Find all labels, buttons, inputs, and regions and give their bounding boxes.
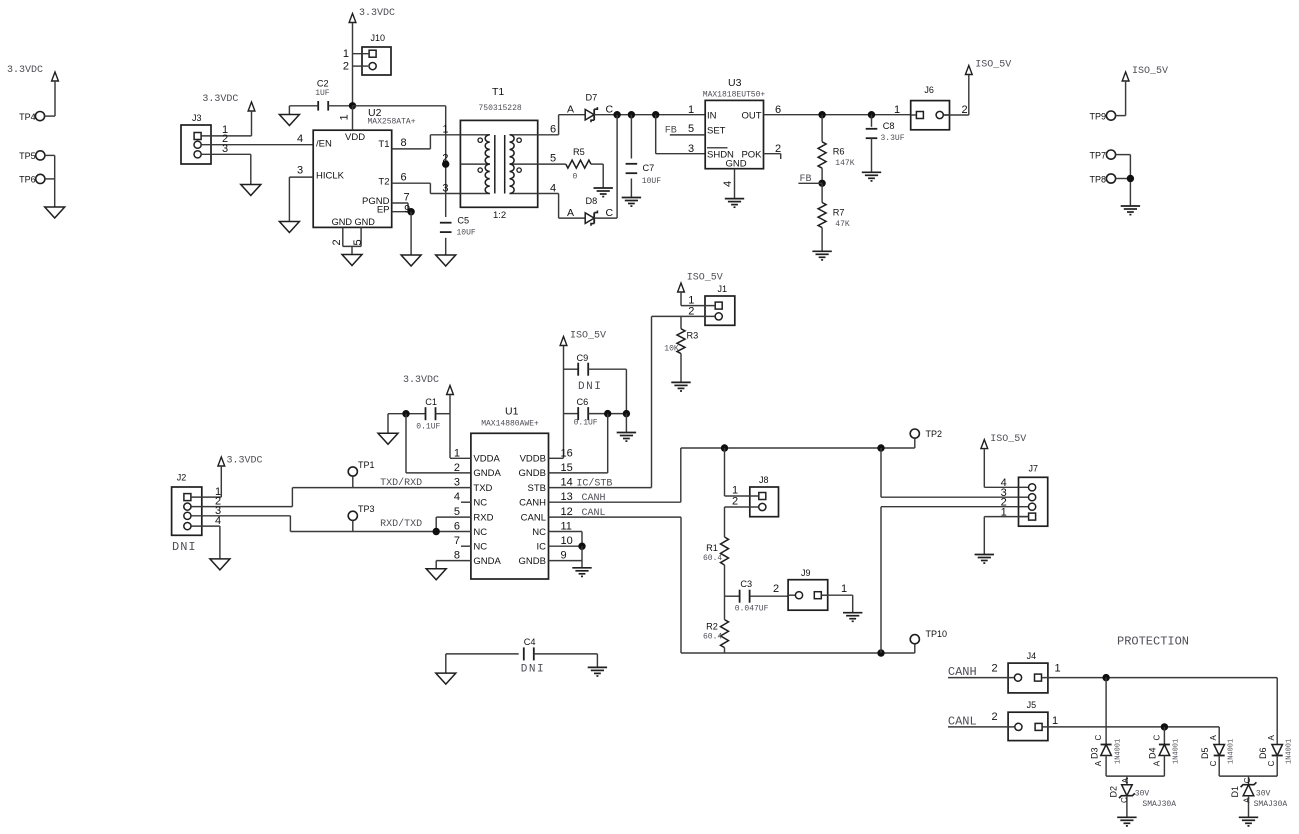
wire J3 pin2 to U2 /EN (pin 4)	[201, 133, 313, 145]
svg-text:2: 2	[961, 104, 967, 116]
wire C9 right to C6 node	[625, 369, 627, 413]
wire J6 pin2 to ISO_5V	[944, 74, 969, 115]
ground (earth) at R3	[671, 382, 690, 391]
svg-text:TP3: TP3	[358, 504, 375, 514]
U2 pin 8 T1 wire	[392, 135, 461, 149]
svg-text:6: 6	[550, 124, 556, 136]
svg-text:A: A	[1209, 735, 1218, 741]
svg-text:9: 9	[561, 550, 567, 562]
svg-text:3: 3	[442, 182, 448, 194]
junction J4/D3 node	[1102, 674, 1109, 681]
connector J2 (DNI)	[172, 473, 202, 554]
svg-text:C7: C7	[643, 163, 655, 173]
svg-text:1: 1	[688, 104, 694, 116]
IC U3 MAX1818EUT50+	[703, 77, 766, 170]
wire J8 pin1	[725, 448, 759, 497]
U1 pin1 VDDA wire	[450, 457, 471, 459]
U1 left pin numbers	[454, 447, 460, 561]
junction C6/GNDB node	[604, 410, 611, 417]
wire CANH to D3 cathode	[1105, 678, 1107, 745]
svg-text:10: 10	[561, 535, 573, 547]
diode D7	[585, 93, 613, 123]
capacitor C3 0.047UF	[725, 579, 789, 614]
U1 right pin numbers	[561, 447, 573, 561]
svg-text:ISO_5V: ISO_5V	[687, 273, 723, 284]
svg-text:12: 12	[561, 506, 573, 518]
wire CANL to J7 pin2	[881, 507, 1029, 653]
U1 pin7 NC stub	[461, 545, 471, 547]
svg-text:A: A	[567, 104, 574, 116]
U2 pin 3 HICLK wire to ground	[289, 165, 313, 222]
svg-text:VDDB: VDDB	[520, 454, 546, 465]
wire TP7/TP8 to ground	[1129, 155, 1131, 206]
svg-text:CANL: CANL	[948, 714, 977, 728]
svg-text:1N4001: 1N4001	[1114, 739, 1122, 764]
junction rail node A	[613, 111, 620, 118]
wire D1 to ground	[1248, 796, 1250, 818]
svg-text:NC: NC	[473, 542, 487, 553]
svg-text:C3: C3	[740, 579, 752, 589]
svg-text:C9: C9	[577, 353, 589, 363]
junction CANH J8 node	[721, 444, 728, 451]
svg-text:C4: C4	[524, 637, 536, 647]
svg-text:MAX1818EUT50+: MAX1818EUT50+	[703, 91, 766, 100]
junction OUT node C8	[868, 111, 875, 118]
wire CANL down to bus	[681, 517, 915, 653]
ground (earth) at R7	[812, 251, 831, 260]
svg-text:750315228: 750315228	[479, 104, 522, 113]
svg-text:5: 5	[352, 239, 364, 245]
svg-text:1: 1	[1052, 715, 1058, 727]
net label CANH wire to J4 pin2	[948, 662, 1014, 679]
U1 pin13 CANH wire + net label CANH	[549, 493, 681, 504]
svg-text:T1: T1	[492, 86, 504, 98]
U2 pins 2,5 GND wires	[331, 227, 364, 254]
svg-text:1: 1	[343, 48, 349, 60]
wire J8 pin2 to R1	[725, 496, 759, 538]
connector J5	[1008, 700, 1048, 741]
svg-text:MAX258ATA+: MAX258ATA+	[368, 118, 416, 127]
svg-text:J4: J4	[1027, 651, 1037, 661]
svg-text:C2: C2	[317, 79, 329, 89]
wire D5/D6 cathodes join	[1219, 756, 1277, 785]
wire rail to U3 SHDN	[656, 115, 706, 154]
wire D3/D4 anodes join	[1106, 756, 1164, 785]
svg-text:4: 4	[550, 182, 556, 194]
svg-text:1: 1	[454, 447, 460, 459]
diode D1 SMAJ30A (TVS)	[1230, 777, 1287, 809]
ground (triangle) at EP	[401, 255, 421, 266]
U2 pin 1 VDD wire	[339, 106, 353, 130]
svg-text:CANH: CANH	[582, 493, 606, 504]
svg-text:TP10: TP10	[926, 629, 948, 639]
svg-text:5: 5	[454, 506, 460, 518]
U3 pin1 IN label	[688, 104, 694, 116]
svg-text:TP8: TP8	[1089, 174, 1106, 184]
svg-text:U3: U3	[728, 77, 742, 89]
power flag ISO_5V at J1	[678, 273, 723, 306]
wire J2 pin3 to RXD/TXD	[191, 505, 290, 532]
svg-text:A: A	[1152, 760, 1161, 766]
svg-text:GNDB: GNDB	[519, 468, 546, 479]
svg-text:0: 0	[573, 173, 578, 182]
wire J3 pin3 to ground	[201, 143, 250, 185]
connector J3	[181, 113, 211, 164]
power flag 3.3VDC (top)	[349, 8, 395, 106]
resistor R3 10K	[664, 316, 698, 382]
test point TP9	[1089, 111, 1125, 121]
ground (earth) at J9	[843, 613, 862, 622]
net label FB at U3 SET (pin 5)	[665, 123, 705, 136]
svg-text:0.1UF: 0.1UF	[416, 423, 440, 432]
svg-text:3.3VDC: 3.3VDC	[202, 94, 238, 105]
svg-text:CANL: CANL	[521, 512, 546, 523]
IC U1 MAX14880AWE+	[471, 406, 549, 580]
svg-text:A: A	[1094, 760, 1103, 766]
ground (earth) at C7	[622, 198, 641, 207]
svg-text:/EN: /EN	[316, 139, 332, 150]
U2 pin 7 PGND wire	[392, 192, 410, 212]
ground (earth) at D1	[1239, 817, 1258, 826]
resistor R1 60.4	[703, 537, 729, 596]
svg-text:J1: J1	[718, 284, 728, 294]
U1 pin12 CANL wire + net label CANL	[549, 508, 682, 519]
ground (earth) at U1 GNDB	[572, 568, 591, 577]
svg-text:D3: D3	[1089, 747, 1099, 759]
svg-text:TXD: TXD	[473, 483, 492, 494]
svg-text:J7: J7	[1029, 464, 1039, 474]
wire T1 pin4 to D8 anode	[538, 194, 586, 220]
svg-text:6: 6	[454, 521, 460, 533]
svg-text:10K: 10K	[664, 345, 679, 354]
svg-text:1N4001: 1N4001	[1227, 739, 1235, 764]
svg-text:NC: NC	[473, 527, 487, 538]
ground (triangle) at C1	[378, 433, 398, 444]
svg-text:GNDB: GNDB	[519, 556, 546, 567]
junction RXD node	[433, 528, 440, 535]
U1 pin4 NC stub	[461, 501, 471, 503]
svg-text:1: 1	[339, 114, 351, 120]
svg-text:7: 7	[454, 535, 460, 547]
svg-text:DNI: DNI	[172, 540, 197, 554]
capacitor C5 10UF	[440, 216, 476, 238]
svg-text:D8: D8	[586, 196, 598, 206]
net RXD/TXD wire	[290, 518, 471, 531]
svg-text:C: C	[1267, 760, 1276, 766]
svg-text:RXD/TXD: RXD/TXD	[380, 518, 422, 530]
svg-text:SMAJ30A: SMAJ30A	[1142, 800, 1176, 809]
svg-text:3: 3	[222, 143, 228, 155]
svg-text:D2: D2	[1108, 786, 1118, 798]
power flag 3.3VDC at J3	[202, 94, 255, 136]
svg-text:4: 4	[454, 491, 460, 503]
svg-text:C: C	[606, 104, 614, 116]
wire J4 pin1 to CANH bus	[1042, 662, 1278, 677]
diode D3 1N4001	[1089, 735, 1122, 767]
U1 pin8 GNDA wire to ground	[436, 561, 471, 569]
svg-text:0.047UF: 0.047UF	[735, 605, 769, 614]
wire J10 pin2	[343, 61, 368, 73]
power flag 3.3VDC at J2	[218, 456, 263, 467]
svg-text:TP9: TP9	[1089, 111, 1106, 121]
svg-text:DNI: DNI	[521, 664, 545, 676]
svg-text:GND: GND	[726, 159, 747, 170]
svg-text:GND: GND	[332, 217, 353, 227]
svg-text:2: 2	[343, 61, 349, 73]
svg-text:J5: J5	[1027, 700, 1037, 710]
power flag 3.3VDC at C1	[403, 375, 453, 458]
svg-text:5: 5	[688, 123, 694, 135]
svg-text:A: A	[1242, 797, 1251, 803]
net TXD/RXD wire	[292, 477, 471, 489]
test point TP3	[348, 504, 374, 531]
junction rail node C	[652, 111, 659, 118]
svg-text:J6: J6	[924, 85, 934, 95]
ground (earth) at R5	[594, 188, 613, 197]
wire CANH bus to D6 anode	[1276, 678, 1278, 745]
section label PROTECTION	[1117, 634, 1189, 648]
U1 pin14 STB wire + net label IC/STB	[549, 478, 652, 490]
ground (triangle) at U2 GND	[342, 255, 362, 266]
svg-text:D4: D4	[1148, 747, 1158, 759]
svg-text:2: 2	[773, 583, 779, 595]
resistor R2 60.4	[703, 596, 729, 653]
U1 pin10 IC wire	[549, 545, 583, 547]
power flag ISO_5V at C9/C6	[560, 331, 606, 459]
svg-text:C5: C5	[457, 216, 469, 226]
ground (triangle) at C5	[436, 255, 456, 266]
svg-text:TP2: TP2	[926, 429, 943, 439]
wire C1 node to U1 GNDA (pin 2)	[406, 414, 471, 473]
wire CANH up to bus	[681, 448, 915, 502]
svg-text:R1: R1	[706, 543, 718, 553]
svg-text:1:2: 1:2	[493, 210, 506, 221]
svg-text:VDDA: VDDA	[473, 454, 500, 465]
svg-text:C1: C1	[425, 397, 437, 407]
svg-text:J2: J2	[177, 473, 187, 483]
junction EP node	[407, 208, 414, 215]
svg-text:T2: T2	[378, 177, 389, 188]
connector J6	[894, 85, 968, 130]
svg-text:1UF: 1UF	[315, 89, 330, 98]
svg-text:6: 6	[775, 104, 781, 116]
diode D2 SMAJ30A (TVS)	[1108, 777, 1176, 809]
svg-text:1: 1	[841, 583, 847, 595]
svg-text:1: 1	[442, 124, 448, 136]
svg-text:1N4001: 1N4001	[1285, 739, 1293, 764]
resistor R7 47K	[818, 183, 850, 251]
test point TP7	[1089, 150, 1130, 160]
ground (earth) at D2	[1117, 817, 1136, 826]
svg-text:1: 1	[894, 104, 900, 116]
U2 pin 6 T2 wire	[392, 172, 461, 194]
svg-text:C6: C6	[577, 397, 589, 407]
wire D2 to ground	[1126, 796, 1128, 818]
wire J1 pin2 to STB net	[652, 306, 715, 488]
ground (earth) below TP8	[1121, 206, 1140, 215]
svg-text:J10: J10	[371, 33, 386, 43]
svg-text:RXD: RXD	[473, 512, 493, 523]
diode D8	[585, 196, 613, 226]
test point TP6	[19, 174, 55, 184]
svg-text:J8: J8	[759, 475, 769, 485]
svg-text:C8: C8	[883, 121, 895, 131]
svg-text:D6: D6	[1258, 747, 1268, 759]
test point TP8	[1089, 174, 1130, 184]
svg-text:T1: T1	[378, 139, 389, 150]
svg-text:3.3VDC: 3.3VDC	[359, 8, 395, 19]
connector J1	[705, 284, 735, 325]
capacitor C7 10UF	[626, 115, 662, 198]
wire D8 cathode up to rail	[594, 115, 617, 218]
wire CANH to J7 pin3	[881, 448, 1029, 497]
svg-text:47K: 47K	[835, 220, 850, 229]
junction rail node B	[628, 111, 635, 118]
svg-text:C: C	[1094, 735, 1103, 741]
U3 pin6 OUT wire	[764, 104, 911, 116]
ground (earth) at U3 GND	[725, 199, 744, 208]
svg-text:DNI: DNI	[578, 381, 602, 393]
svg-text:C: C	[606, 207, 614, 219]
connector J4	[1008, 651, 1048, 693]
connector J7	[1019, 464, 1048, 527]
svg-text:30V: 30V	[1256, 790, 1271, 799]
svg-text:2: 2	[732, 496, 738, 508]
svg-text:14: 14	[561, 477, 573, 489]
svg-text:3: 3	[297, 165, 303, 177]
ground (triangle) at U1 GNDA	[426, 569, 446, 580]
wire D7 cathode to rail	[594, 114, 705, 116]
resistor R5 0	[538, 147, 604, 188]
capacitor C1 0.1UF	[388, 397, 450, 433]
svg-text:FB: FB	[800, 174, 812, 185]
capacitor C4 (DNI)	[446, 637, 598, 676]
U3 pin4 GND wire	[722, 169, 735, 199]
junction C1/GNDA node	[402, 410, 409, 417]
U1 pin11 NC wire	[549, 532, 583, 547]
svg-text:2: 2	[442, 153, 448, 165]
svg-text:SMAJ30A: SMAJ30A	[1254, 800, 1288, 809]
svg-text:HICLK: HICLK	[316, 171, 345, 182]
diode D5 1N4001	[1200, 735, 1235, 767]
net label FB at divider	[798, 174, 822, 185]
wire J3 pin1 to 3.3VDC	[201, 124, 251, 136]
svg-text:2: 2	[991, 662, 997, 674]
svg-text:8: 8	[400, 137, 406, 149]
test point TP4	[19, 112, 55, 122]
U3 pin3 SHDN label	[688, 143, 694, 155]
svg-text:10UF: 10UF	[642, 177, 661, 186]
svg-text:60.4: 60.4	[703, 632, 722, 641]
capacitor C2 1UF	[289, 79, 352, 115]
svg-text:R6: R6	[833, 147, 845, 157]
svg-text:TP6: TP6	[19, 175, 36, 185]
svg-text:IC/STB: IC/STB	[576, 478, 612, 490]
wire J10 pin1	[343, 48, 369, 60]
wire J2 pin1 to 3.3VDC	[191, 466, 221, 498]
svg-text:C: C	[1209, 760, 1218, 766]
svg-text:TP5: TP5	[19, 151, 36, 161]
ground (triangle) at J3 pin3	[241, 185, 261, 196]
svg-text:D7: D7	[586, 93, 598, 103]
svg-text:0.1UF: 0.1UF	[574, 419, 598, 428]
svg-text:ISO_5V: ISO_5V	[975, 60, 1011, 71]
wire T1 pin6 to D7 anode	[538, 104, 586, 135]
svg-text:J3: J3	[192, 113, 202, 123]
svg-text:D5: D5	[1200, 747, 1210, 759]
U1 pin9 GNDB wire	[549, 546, 583, 568]
test point TP5	[19, 151, 55, 161]
test point TP10	[910, 629, 947, 653]
svg-text:3.3UF: 3.3UF	[881, 134, 905, 143]
svg-text:J9: J9	[801, 568, 811, 578]
wire J2 pin4 to ground	[191, 515, 221, 559]
svg-text:STB: STB	[528, 483, 546, 494]
svg-text:7: 7	[403, 192, 409, 204]
svg-text:MAX14880AWE+: MAX14880AWE+	[481, 420, 539, 429]
resistor R6 147K	[818, 115, 855, 184]
svg-text:10UF: 10UF	[457, 229, 476, 238]
svg-text:R7: R7	[833, 208, 845, 218]
svg-text:A: A	[567, 207, 574, 219]
svg-text:4: 4	[297, 133, 303, 145]
connector J9	[788, 568, 828, 610]
svg-text:NC: NC	[532, 527, 546, 538]
svg-text:NC: NC	[473, 498, 487, 509]
svg-text:GNDA: GNDA	[473, 556, 501, 567]
ground (triangle) at C4 left	[436, 673, 456, 684]
diode D4 1N4001	[1148, 735, 1181, 767]
svg-text:R3: R3	[687, 331, 699, 341]
svg-text:13: 13	[561, 491, 573, 503]
power flag ISO_5V at J6	[965, 60, 1011, 75]
svg-text:2: 2	[991, 711, 997, 723]
svg-text:8: 8	[454, 550, 460, 562]
svg-text:R5: R5	[573, 147, 585, 157]
junction CANH/J7 node	[877, 444, 884, 451]
junction FB node	[818, 180, 825, 187]
svg-text:2: 2	[331, 239, 343, 245]
svg-text:C: C	[1152, 735, 1161, 741]
wire trunk to C5	[445, 106, 447, 255]
svg-text:3.3VDC: 3.3VDC	[227, 456, 263, 467]
svg-text:147K: 147K	[835, 159, 854, 168]
junction T1 pin2 tap	[442, 160, 449, 167]
svg-text:60.4: 60.4	[703, 554, 722, 563]
U1 pin5 RXD wire	[436, 517, 471, 531]
svg-text:SET: SET	[707, 126, 726, 137]
U1 pin16 VDDB wire	[549, 457, 564, 459]
wire ISO_5V to J7 pin4	[984, 486, 1029, 488]
U1 pin15 GNDB wire	[549, 414, 608, 473]
svg-text:ISO_5V: ISO_5V	[1132, 66, 1168, 77]
svg-text:OUT: OUT	[741, 111, 761, 122]
power flag ISO_5V at J7	[981, 434, 1026, 487]
U2 pin 9 EP wire	[392, 204, 411, 216]
svg-text:CANH: CANH	[948, 665, 977, 679]
ground (earth) at C6	[617, 433, 636, 442]
diode D6 1N4001	[1258, 735, 1293, 767]
junction OUT node R6	[818, 111, 825, 118]
svg-text:C: C	[1243, 777, 1252, 783]
svg-text:EP: EP	[377, 205, 390, 216]
svg-text:5: 5	[550, 153, 556, 165]
U3 pin2 POK stub	[764, 143, 782, 159]
junction TP8 node	[1127, 175, 1134, 182]
capacitor C8 3.3UF	[866, 115, 905, 173]
svg-text:4: 4	[722, 181, 734, 187]
junction VDD node	[349, 102, 356, 109]
